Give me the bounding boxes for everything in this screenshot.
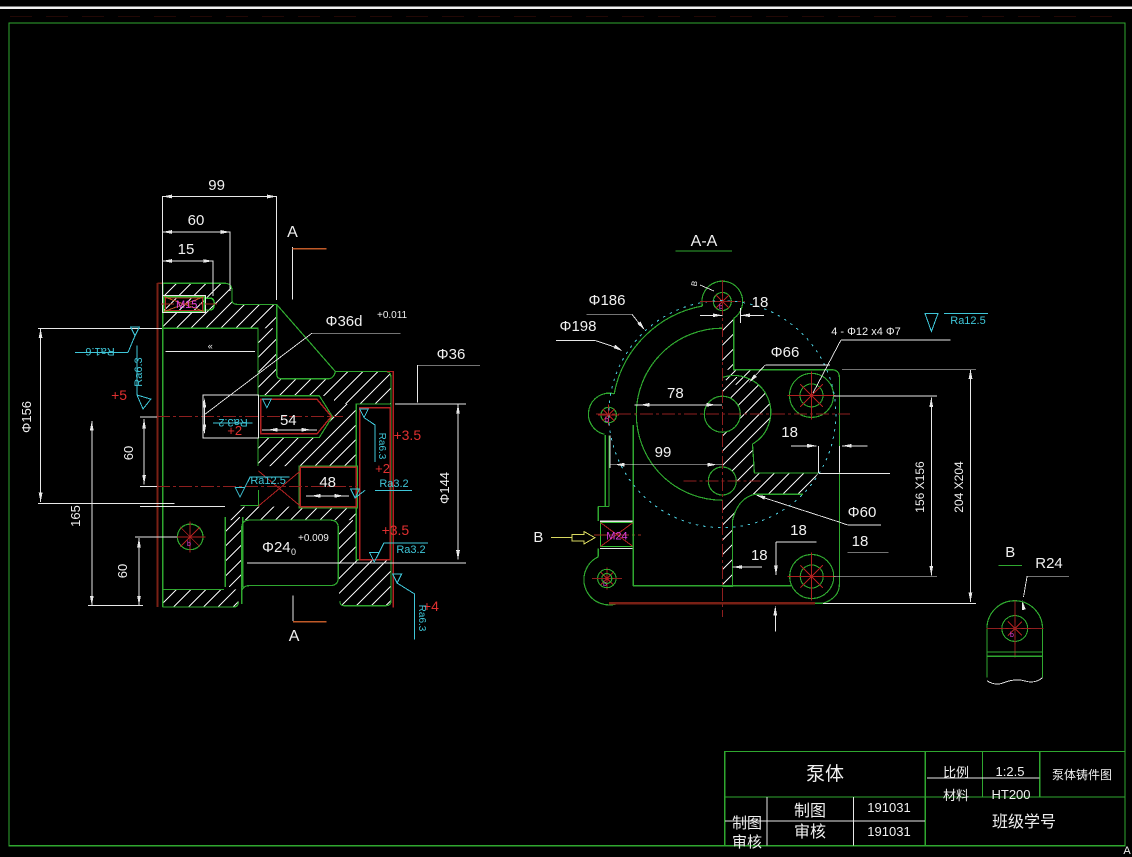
svg-text:18: 18 xyxy=(790,522,807,539)
svg-text:Φ60: Φ60 xyxy=(848,504,877,521)
svg-text:Φ186: Φ186 xyxy=(589,292,626,309)
svg-text:b: b xyxy=(1010,632,1014,639)
svg-text:B: B xyxy=(533,529,543,546)
svg-text:99: 99 xyxy=(208,177,225,194)
svg-text:Φ156: Φ156 xyxy=(19,401,34,433)
svg-text:B: B xyxy=(1005,544,1015,561)
svg-text:18: 18 xyxy=(752,294,769,311)
svg-text:18: 18 xyxy=(751,547,768,564)
svg-text:78: 78 xyxy=(667,385,684,402)
svg-text:b: b xyxy=(605,417,609,424)
svg-text:b: b xyxy=(187,541,191,548)
svg-text:比例: 比例 xyxy=(943,765,969,780)
svg-text:+0.011: +0.011 xyxy=(377,310,408,321)
svg-text:HT200: HT200 xyxy=(991,787,1030,802)
svg-text:Φ144: Φ144 xyxy=(437,472,452,504)
svg-text:A: A xyxy=(289,628,300,645)
svg-text:«: « xyxy=(208,341,213,351)
svg-text:Φ198: Φ198 xyxy=(560,318,597,335)
svg-text:Φ36: Φ36 xyxy=(437,346,466,363)
svg-text:18: 18 xyxy=(852,533,869,550)
svg-text:M24: M24 xyxy=(606,531,627,543)
svg-text:204 X204: 204 X204 xyxy=(952,461,966,513)
svg-text:191031: 191031 xyxy=(867,800,910,815)
svg-text:A: A xyxy=(1123,845,1131,857)
svg-text:M15: M15 xyxy=(176,299,197,311)
svg-text:54: 54 xyxy=(280,412,297,429)
svg-text:Φ24: Φ24 xyxy=(262,539,291,556)
svg-text:48: 48 xyxy=(319,474,336,491)
svg-text:15: 15 xyxy=(178,241,195,258)
svg-text:A-A: A-A xyxy=(691,233,718,250)
svg-text:Ra1.6: Ra1.6 xyxy=(85,345,114,357)
svg-text:+5: +5 xyxy=(111,387,127,403)
svg-text:18: 18 xyxy=(781,424,798,441)
svg-text:审核: 审核 xyxy=(732,834,762,851)
svg-text:+3.5: +3.5 xyxy=(382,522,410,538)
svg-text:165: 165 xyxy=(68,505,83,527)
svg-text:+0.009: +0.009 xyxy=(298,533,329,544)
svg-text:0: 0 xyxy=(291,547,296,557)
svg-text:审核: 审核 xyxy=(794,823,826,841)
svg-text:材料: 材料 xyxy=(943,788,969,803)
svg-text:Ra6.3: Ra6.3 xyxy=(376,433,387,460)
svg-text:60: 60 xyxy=(121,446,136,460)
svg-text:Φ36d: Φ36d xyxy=(326,313,363,330)
svg-text:Ra12.5: Ra12.5 xyxy=(250,475,285,487)
svg-text:Ra6.3: Ra6.3 xyxy=(416,605,427,632)
svg-text:制图: 制图 xyxy=(732,815,762,832)
svg-text:99: 99 xyxy=(655,444,672,461)
svg-text:R24: R24 xyxy=(1035,555,1063,572)
svg-text:+2: +2 xyxy=(375,461,390,476)
svg-text:制图: 制图 xyxy=(794,802,826,820)
svg-text:Ra6.3: Ra6.3 xyxy=(133,357,145,386)
svg-text:1:2.5: 1:2.5 xyxy=(996,764,1025,779)
svg-text:Ra12.5: Ra12.5 xyxy=(950,315,985,327)
svg-text:4 - Φ12 x4 Φ7: 4 - Φ12 x4 Φ7 xyxy=(831,326,901,338)
svg-text:泵体铸件图: 泵体铸件图 xyxy=(1052,767,1112,782)
svg-text:60: 60 xyxy=(115,564,130,578)
svg-text:泵体: 泵体 xyxy=(806,763,844,785)
svg-text:班级学号: 班级学号 xyxy=(992,813,1056,831)
svg-text:156 X156: 156 X156 xyxy=(913,461,927,513)
svg-text:+2: +2 xyxy=(227,423,242,438)
svg-text:+3.5: +3.5 xyxy=(393,427,421,443)
svg-text:Φ66: Φ66 xyxy=(771,344,800,361)
svg-text:191031: 191031 xyxy=(867,824,910,839)
svg-text:Ra3.2: Ra3.2 xyxy=(396,544,425,556)
svg-text:Ra3.2: Ra3.2 xyxy=(379,478,408,490)
svg-text:A: A xyxy=(287,224,298,241)
svg-text:60: 60 xyxy=(188,212,205,229)
